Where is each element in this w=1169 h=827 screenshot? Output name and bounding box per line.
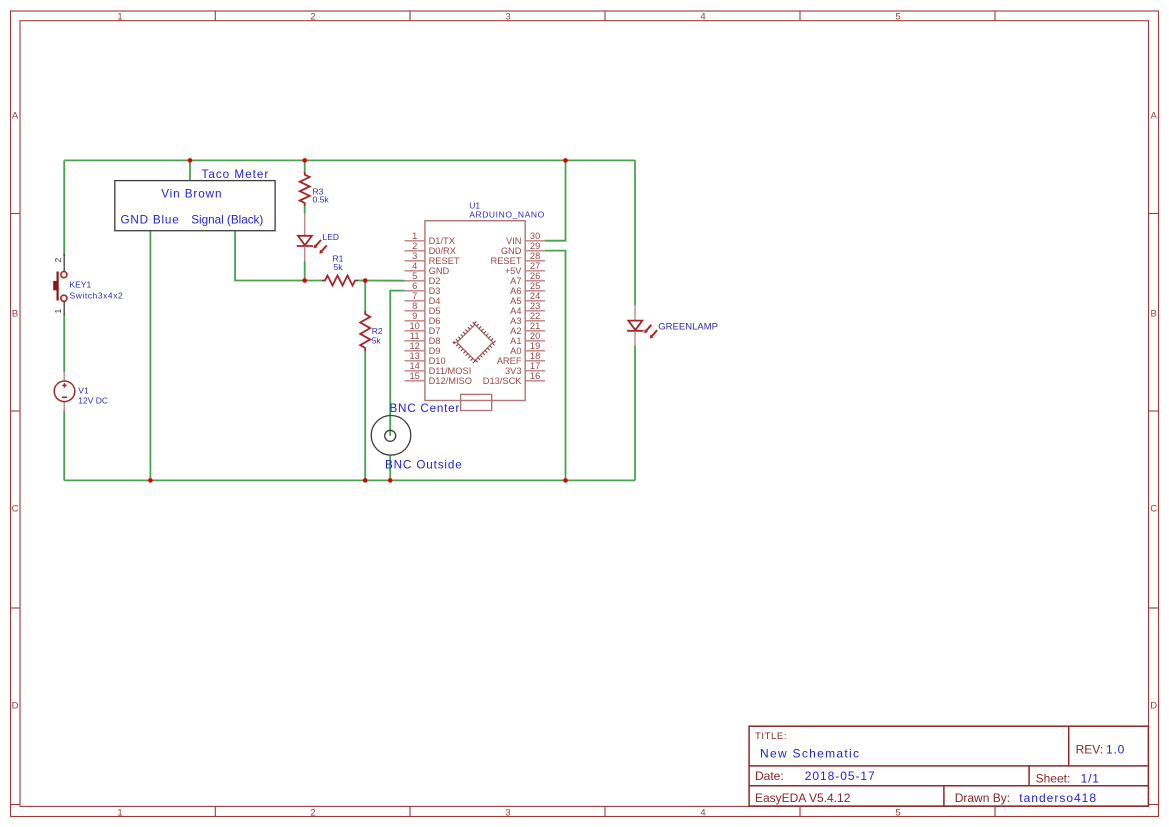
svg-text:tanderso418: tanderso418 <box>1019 791 1097 805</box>
row letters left <box>12 111 19 712</box>
svg-text:A0: A0 <box>510 346 521 356</box>
svg-text:30: 30 <box>530 231 540 241</box>
svg-text:3V3: 3V3 <box>505 366 522 376</box>
svg-text:C: C <box>12 504 19 515</box>
svg-text:Vin Brown: Vin Brown <box>161 188 222 201</box>
svg-text:3: 3 <box>505 11 510 22</box>
svg-text:3: 3 <box>505 807 510 818</box>
svg-text:1: 1 <box>412 231 417 241</box>
svg-text:BNC Outside: BNC Outside <box>385 459 463 472</box>
svg-text:D3: D3 <box>429 286 441 296</box>
svg-text:2018-05-17: 2018-05-17 <box>805 769 876 783</box>
resistor R1 <box>322 276 358 286</box>
svg-text:5: 5 <box>895 807 900 818</box>
svg-text:D8: D8 <box>429 336 441 346</box>
svg-text:A6: A6 <box>510 286 521 296</box>
svg-text:12: 12 <box>410 341 420 351</box>
switch KEY1 pin circles <box>61 272 67 278</box>
wire R2 to bottom rail <box>364 351 366 480</box>
svg-text:GND: GND <box>429 266 450 276</box>
svg-text:D10: D10 <box>429 356 446 366</box>
title block row separator 1 <box>749 765 1148 767</box>
greenlamp LED bottom lead <box>634 331 636 346</box>
svg-text:B: B <box>12 309 18 320</box>
svg-text:D5: D5 <box>429 306 441 316</box>
svg-text:GREENLAMP: GREENLAMP <box>658 322 718 333</box>
wire R3 top stub <box>304 160 306 172</box>
svg-text:V1: V1 <box>78 386 89 396</box>
LED bottom lead <box>304 246 306 261</box>
svg-text:A4: A4 <box>510 306 521 316</box>
svg-text:TITLE:: TITLE: <box>755 731 787 742</box>
svg-text:BNC Center: BNC Center <box>390 402 461 415</box>
svg-text:D4: D4 <box>429 296 441 306</box>
svg-text:A7: A7 <box>510 276 521 286</box>
svg-text:RESET: RESET <box>429 256 460 266</box>
svg-text:7: 7 <box>412 291 417 301</box>
wire Signal (Black) down and right <box>235 231 305 281</box>
wire R1 to node <box>358 280 365 282</box>
svg-text:5: 5 <box>895 11 900 22</box>
resistor R3 <box>300 172 310 206</box>
svg-text:A2: A2 <box>510 326 521 336</box>
column ruler ticks bottom <box>215 806 995 816</box>
junction node top-taco <box>188 158 193 163</box>
BNC connector inner circle <box>385 430 396 441</box>
wire right rail down to greenlamp <box>634 160 636 305</box>
junction node R1-R2-D2 <box>363 278 368 283</box>
junction node bottom-R2 <box>363 478 368 483</box>
column numbers bottom <box>117 807 900 818</box>
svg-text:23: 23 <box>530 301 540 311</box>
wire pin VIN to top rail <box>545 160 566 240</box>
svg-text:4: 4 <box>700 11 705 22</box>
svg-text:D11/MOSI: D11/MOSI <box>429 366 472 376</box>
op-amp U1 ARDUINO_NANO body <box>425 221 525 401</box>
wire top rail <box>64 159 635 161</box>
svg-text:21: 21 <box>530 321 540 331</box>
svg-text:1/1: 1/1 <box>1081 772 1100 786</box>
svg-text:26: 26 <box>530 271 540 281</box>
title block Drawn By divider <box>943 786 945 806</box>
LED symbol <box>298 236 312 245</box>
junction node bottom-GNDblue <box>148 478 153 483</box>
BNC connector outer circle <box>371 416 411 456</box>
svg-text:5k: 5k <box>334 262 344 272</box>
svg-text:Taco Meter: Taco Meter <box>202 168 270 181</box>
svg-text:2: 2 <box>53 258 63 263</box>
svg-text:AREF: AREF <box>497 356 522 366</box>
wire bottom rail <box>64 479 635 481</box>
svg-text:25: 25 <box>530 281 540 291</box>
svg-text:17: 17 <box>530 361 540 371</box>
wire LED to node <box>304 261 306 281</box>
junction node bottom-GND29 <box>563 478 568 483</box>
svg-text:20: 20 <box>530 331 540 341</box>
wire left rail top to switch <box>63 160 65 256</box>
svg-text:1: 1 <box>117 11 122 22</box>
svg-text:4: 4 <box>700 807 705 818</box>
svg-text:29: 29 <box>530 241 540 251</box>
switch KEY1 pin stubs <box>63 254 65 271</box>
greenlamp LED top lead <box>634 305 636 320</box>
svg-text:18: 18 <box>530 351 540 361</box>
LED top lead <box>304 213 306 236</box>
svg-text:1.0: 1.0 <box>1106 743 1125 757</box>
U1 right pins 30-16 <box>483 231 545 386</box>
svg-text:VIN: VIN <box>506 236 522 246</box>
svg-text:GND Blue: GND Blue <box>121 213 180 226</box>
svg-text:3: 3 <box>412 251 417 261</box>
wire taco box feed <box>189 160 191 180</box>
U1 left pins 1-15 <box>405 231 473 386</box>
taco meter annotation box <box>115 181 275 231</box>
svg-text:2: 2 <box>310 11 315 22</box>
svg-text:15: 15 <box>410 371 420 381</box>
svg-text:RESET: RESET <box>491 256 522 266</box>
svg-text:16: 16 <box>530 371 540 381</box>
svg-text:Drawn By:: Drawn By: <box>955 791 1010 805</box>
svg-text:Date:: Date: <box>755 769 784 783</box>
svg-text:4: 4 <box>412 261 417 271</box>
title block Sheet divider <box>1028 766 1030 786</box>
svg-text:19: 19 <box>530 341 540 351</box>
svg-text:D2: D2 <box>429 276 441 286</box>
junction node top-R3 <box>302 158 307 163</box>
wire node to R1 <box>305 280 322 282</box>
svg-text:D9: D9 <box>429 346 441 356</box>
svg-text:LED: LED <box>323 232 340 242</box>
svg-text:A: A <box>12 111 19 122</box>
wire pin GND to bottom rail <box>545 251 566 481</box>
svg-text:B: B <box>1151 309 1157 320</box>
svg-text:A: A <box>1151 111 1158 122</box>
svg-text:0.5k: 0.5k <box>313 194 330 204</box>
svg-text:Sheet:: Sheet: <box>1036 772 1071 786</box>
wire node to R2 <box>364 281 366 312</box>
svg-text:1: 1 <box>117 807 122 818</box>
wire pin D3 to BNC center <box>390 291 404 436</box>
svg-text:24: 24 <box>530 291 540 301</box>
svg-text:8: 8 <box>412 301 417 311</box>
svg-text:A5: A5 <box>510 296 521 306</box>
svg-text:D: D <box>12 701 19 712</box>
U1 chip diamond glyph <box>455 322 495 362</box>
row ruler ticks left <box>11 214 21 805</box>
svg-text:27: 27 <box>530 261 540 271</box>
row letters right <box>1150 111 1157 712</box>
svg-text:C: C <box>1150 504 1157 515</box>
row ruler ticks right <box>1149 214 1159 805</box>
svg-text:REV:: REV: <box>1076 743 1104 757</box>
svg-text:12V DC: 12V DC <box>78 395 108 405</box>
title block outline <box>749 726 1148 806</box>
junction node top-VIN <box>563 158 568 163</box>
svg-text:D7: D7 <box>429 326 441 336</box>
svg-text:5k: 5k <box>372 336 382 346</box>
svg-text:22: 22 <box>530 311 540 321</box>
svg-text:13: 13 <box>410 351 420 361</box>
wire switch to V1 <box>63 314 65 372</box>
wire GND Blue to bottom rail <box>149 231 151 481</box>
svg-text:+5V: +5V <box>505 266 523 276</box>
svg-text:6: 6 <box>412 281 417 291</box>
greenlamp LED symbol <box>628 321 642 330</box>
title block row separator 2 <box>749 785 1148 787</box>
voltage source V1 pin stubs <box>63 372 65 381</box>
svg-text:A3: A3 <box>510 316 521 326</box>
svg-text:10: 10 <box>410 321 420 331</box>
svg-text:GND: GND <box>501 246 522 256</box>
svg-text:Signal (Black): Signal (Black) <box>191 213 263 226</box>
wire greenlamp bottom to bottom rail <box>634 346 636 481</box>
svg-text:2: 2 <box>412 241 417 251</box>
svg-text:KEY1: KEY1 <box>70 280 92 290</box>
column numbers top <box>117 11 900 22</box>
svg-text:D6: D6 <box>429 316 441 326</box>
voltage source V1 body <box>54 381 75 402</box>
svg-text:D1/TX: D1/TX <box>429 236 455 246</box>
svg-text:5: 5 <box>412 271 417 281</box>
svg-text:D0/RX: D0/RX <box>429 246 456 256</box>
junction node LED-R1 <box>302 278 307 283</box>
wire node to pin D2 <box>365 280 404 282</box>
U1 usb connector rectangle <box>461 394 492 410</box>
svg-text:1: 1 <box>53 309 63 314</box>
svg-text:New Schematic: New Schematic <box>760 747 860 761</box>
resistor R2 <box>360 311 370 351</box>
wire BNC outside to bottom rail <box>389 456 391 481</box>
svg-text:9: 9 <box>412 311 417 321</box>
svg-text:28: 28 <box>530 251 540 261</box>
column ruler ticks top <box>215 11 995 21</box>
svg-text:11: 11 <box>410 331 420 341</box>
svg-text:R2: R2 <box>372 326 383 336</box>
svg-text:14: 14 <box>410 361 420 371</box>
title block REV divider <box>1068 726 1070 766</box>
svg-text:A1: A1 <box>510 336 521 346</box>
junction node bottom-BNC <box>388 478 393 483</box>
wire R3 to LED <box>304 206 306 214</box>
switch KEY1 body <box>56 272 58 301</box>
svg-text:EasyEDA V5.4.12: EasyEDA V5.4.12 <box>755 791 851 805</box>
svg-text:D12/MISO: D12/MISO <box>429 376 472 386</box>
svg-text:D13/SCK: D13/SCK <box>483 376 523 386</box>
svg-text:Switch3x4x2: Switch3x4x2 <box>70 290 124 300</box>
svg-text:D: D <box>1150 701 1157 712</box>
svg-text:2: 2 <box>310 807 315 818</box>
svg-text:ARDUINO_NANO: ARDUINO_NANO <box>469 210 545 220</box>
wire V1 to bottom rail <box>63 411 65 481</box>
